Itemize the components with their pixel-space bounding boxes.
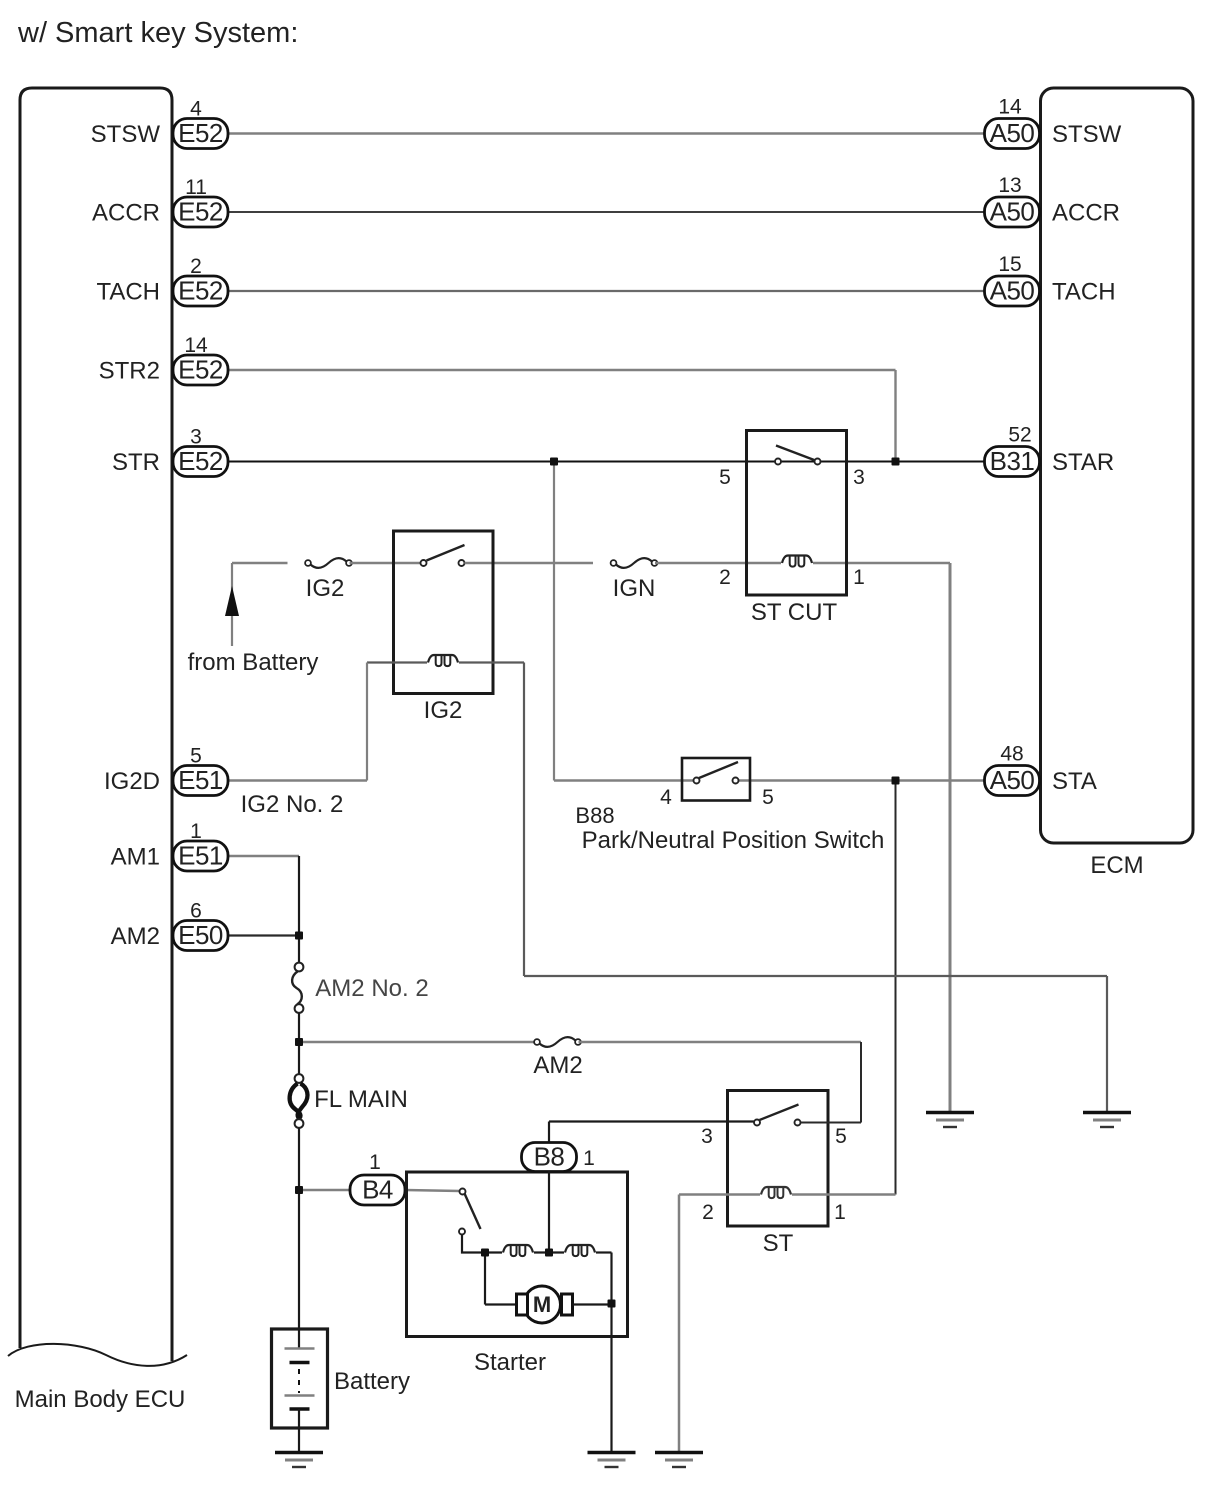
svg-text:14: 14: [998, 96, 1022, 119]
svg-text:AM1: AM1: [111, 844, 160, 871]
svg-text:14: 14: [184, 334, 208, 357]
svg-text:ACCR: ACCR: [1052, 200, 1120, 227]
svg-text:Park/Neutral Position Switch: Park/Neutral Position Switch: [582, 827, 885, 854]
svg-text:A50: A50: [990, 118, 1035, 148]
svg-text:E51: E51: [178, 841, 223, 871]
svg-text:1: 1: [834, 1201, 846, 1224]
svg-text:STAR: STAR: [1052, 449, 1114, 476]
svg-text:from Battery: from Battery: [188, 649, 319, 676]
svg-text:TACH: TACH: [96, 279, 160, 306]
svg-text:TACH: TACH: [1052, 279, 1116, 306]
svg-text:E52: E52: [178, 276, 223, 306]
svg-text:1: 1: [853, 566, 865, 589]
svg-text:6: 6: [190, 900, 202, 923]
svg-text:AM2 No. 2: AM2 No. 2: [315, 975, 428, 1002]
svg-text:B31: B31: [990, 446, 1035, 476]
svg-text:AM2: AM2: [533, 1052, 582, 1079]
svg-text:E52: E52: [178, 355, 223, 385]
svg-text:1: 1: [583, 1147, 595, 1170]
svg-text:ACCR: ACCR: [92, 200, 160, 227]
svg-text:E50: E50: [178, 920, 223, 950]
svg-text:STSW: STSW: [1052, 121, 1122, 148]
svg-text:IG2 No. 2: IG2 No. 2: [241, 791, 344, 818]
svg-text:2: 2: [702, 1201, 714, 1224]
svg-text:ECM: ECM: [1090, 852, 1143, 879]
svg-text:M: M: [533, 1292, 551, 1317]
svg-text:Battery: Battery: [334, 1368, 410, 1395]
svg-text:B88: B88: [575, 803, 614, 828]
svg-text:AM2: AM2: [111, 923, 160, 950]
svg-text:5: 5: [719, 466, 731, 489]
svg-text:Starter: Starter: [474, 1349, 546, 1376]
svg-text:STA: STA: [1052, 768, 1097, 795]
svg-text:STR: STR: [112, 449, 160, 476]
svg-text:48: 48: [1000, 743, 1023, 766]
svg-text:5: 5: [762, 786, 774, 809]
svg-text:ST CUT: ST CUT: [751, 599, 838, 626]
svg-text:2: 2: [190, 255, 202, 278]
svg-text:Main Body ECU: Main Body ECU: [15, 1386, 186, 1413]
svg-text:STSW: STSW: [91, 121, 161, 148]
svg-text:A50: A50: [990, 276, 1035, 306]
svg-text:A50: A50: [990, 197, 1035, 227]
svg-text:A50: A50: [990, 765, 1035, 795]
svg-text:15: 15: [998, 253, 1021, 276]
svg-text:4: 4: [190, 98, 202, 121]
svg-text:STR2: STR2: [99, 358, 160, 385]
svg-text:B4: B4: [362, 1175, 393, 1205]
svg-text:3: 3: [853, 466, 865, 489]
svg-text:w/ Smart key System:: w/ Smart key System:: [17, 17, 298, 49]
svg-text:IG2D: IG2D: [104, 768, 160, 795]
svg-text:52: 52: [1008, 424, 1031, 447]
svg-text:5: 5: [835, 1125, 847, 1148]
svg-text:11: 11: [185, 176, 207, 199]
svg-text:4: 4: [660, 786, 672, 809]
svg-text:13: 13: [998, 174, 1021, 197]
svg-text:5: 5: [190, 745, 202, 768]
svg-text:E52: E52: [178, 118, 223, 148]
svg-text:E51: E51: [178, 765, 223, 795]
svg-text:ST: ST: [763, 1230, 794, 1257]
svg-text:IG2: IG2: [306, 575, 345, 602]
svg-text:1: 1: [190, 820, 202, 843]
svg-text:E52: E52: [178, 446, 223, 476]
svg-text:3: 3: [701, 1125, 713, 1148]
svg-text:IG2: IG2: [424, 697, 463, 724]
svg-text:B8: B8: [534, 1142, 565, 1172]
svg-text:FL MAIN: FL MAIN: [314, 1086, 408, 1113]
svg-text:E52: E52: [178, 197, 223, 227]
svg-text:3: 3: [190, 426, 202, 449]
svg-text:2: 2: [719, 566, 731, 589]
svg-text:IGN: IGN: [613, 575, 656, 602]
svg-text:1: 1: [369, 1151, 381, 1174]
